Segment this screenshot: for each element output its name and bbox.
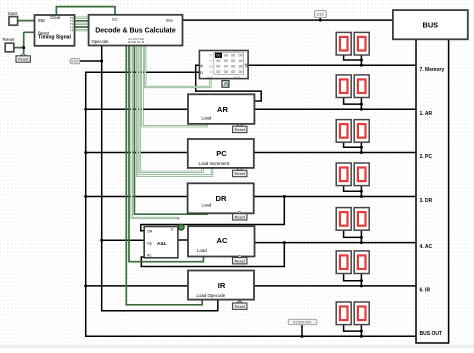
svg-text:sel clr: sel clr xyxy=(234,75,241,79)
svg-text:Start: Start xyxy=(8,11,18,16)
svg-text:AC: AC xyxy=(147,254,152,258)
svg-text:Reset: Reset xyxy=(2,37,15,42)
svg-text:Opecode: Opecode xyxy=(92,39,110,44)
svg-text:IR DR PC M: IR DR PC M xyxy=(128,40,145,44)
svg-text:A: A xyxy=(200,63,203,68)
svg-text:Op: Op xyxy=(147,241,152,245)
svg-text:04: 04 xyxy=(209,59,213,63)
svg-text:BUS OUT: BUS OUT xyxy=(420,331,443,337)
svg-text:Load Increment: Load Increment xyxy=(199,161,230,166)
svg-text:3. DR: 3. DR xyxy=(420,198,433,204)
svg-text:AC: AC xyxy=(217,236,228,245)
svg-text:00: 00 xyxy=(231,70,235,74)
svg-text:Reset: Reset xyxy=(234,127,245,132)
svg-text:4. AC: 4. AC xyxy=(420,244,433,250)
svg-text:7. Memory: 7. Memory xyxy=(420,67,445,73)
svg-text:00: 00 xyxy=(216,54,220,58)
svg-text:000: 000 xyxy=(71,60,78,64)
svg-text:IR: IR xyxy=(218,281,226,290)
svg-text:Decode & Bus Calculate: Decode & Bus Calculate xyxy=(95,27,176,34)
svg-text:2. PC: 2. PC xyxy=(420,154,433,160)
svg-text:Load Opecode: Load Opecode xyxy=(197,293,226,298)
svg-text:6. IR: 6. IR xyxy=(420,288,431,294)
svg-text:EC: EC xyxy=(112,17,118,22)
svg-text:D: D xyxy=(200,70,203,75)
svg-text:00: 00 xyxy=(216,70,220,74)
svg-text:1. AR: 1. AR xyxy=(420,111,433,117)
svg-text:DR: DR xyxy=(216,194,227,203)
svg-text:DR: DR xyxy=(148,229,153,233)
svg-text:Clear: Clear xyxy=(50,15,61,20)
svg-text:00: 00 xyxy=(224,70,228,74)
svg-text:00: 00 xyxy=(231,65,235,69)
svg-text:Load: Load xyxy=(202,115,212,120)
svg-text:00: 00 xyxy=(209,54,213,58)
svg-text:Timing Signal: Timing Signal xyxy=(38,35,71,41)
svg-text:Reset: Reset xyxy=(234,258,245,263)
svg-text:00: 00 xyxy=(224,59,228,63)
svg-text:str ld: str ld xyxy=(207,75,213,79)
svg-text:AR: AR xyxy=(217,105,228,114)
svg-text:00: 00 xyxy=(216,65,220,69)
svg-text:PC: PC xyxy=(216,149,227,158)
svg-text:⇅: ⇅ xyxy=(244,63,248,68)
svg-text:Load: Load xyxy=(197,248,207,253)
svg-text:00: 00 xyxy=(239,54,243,58)
svg-text:INE: INE xyxy=(38,18,45,23)
svg-text:T4: T4 xyxy=(70,28,74,32)
svg-text:08: 08 xyxy=(209,65,213,69)
svg-text:BUS: BUS xyxy=(422,20,438,29)
svg-text:010: 010 xyxy=(317,13,324,17)
svg-text:00: 00 xyxy=(224,54,228,58)
svg-text:00: 00 xyxy=(239,65,243,69)
svg-text:00: 00 xyxy=(224,65,228,69)
svg-text:Bus: Bus xyxy=(166,18,173,23)
svg-text:Reset: Reset xyxy=(18,57,29,62)
svg-text:00: 00 xyxy=(231,59,235,63)
svg-text:Load: Load xyxy=(202,203,212,208)
svg-text:00000000: 00000000 xyxy=(293,321,311,325)
svg-text:A&L: A&L xyxy=(157,241,167,247)
svg-text:Reset: Reset xyxy=(234,171,245,176)
svg-text:Reset: Reset xyxy=(234,215,245,220)
svg-text:00: 00 xyxy=(239,70,243,74)
svg-text:00: 00 xyxy=(239,59,243,63)
svg-text:00: 00 xyxy=(216,59,220,63)
svg-text:0c: 0c xyxy=(209,70,213,74)
svg-text:Reset: Reset xyxy=(234,304,245,309)
svg-text:00: 00 xyxy=(231,54,235,58)
